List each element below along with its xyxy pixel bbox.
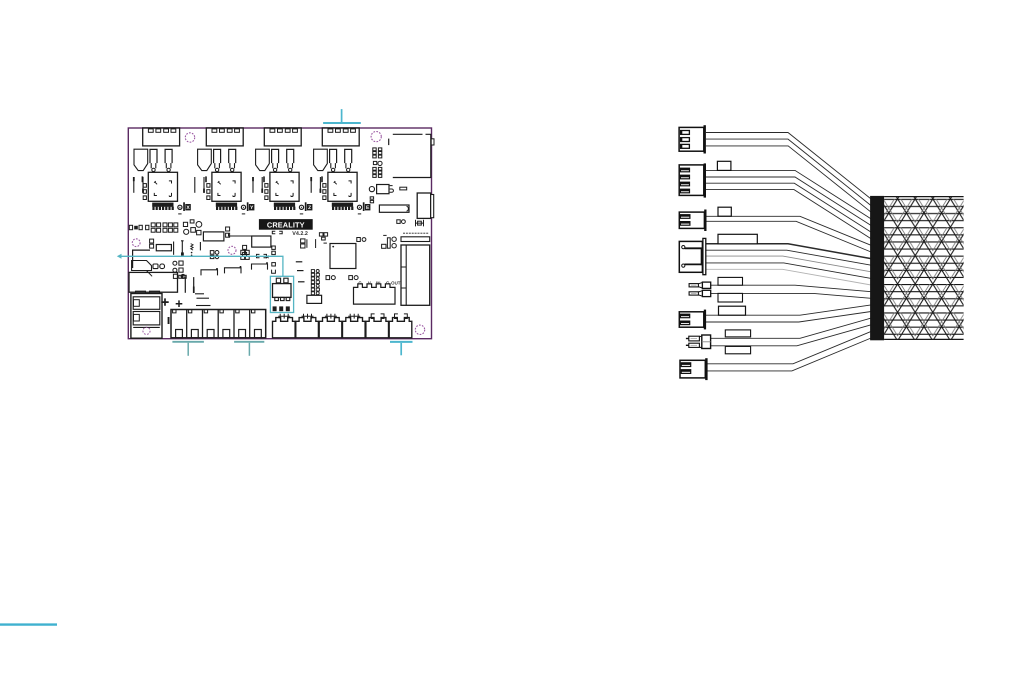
JST connector row bottom right <box>273 318 412 338</box>
pads pair <box>153 264 165 269</box>
connector X2 4-pin (display) <box>679 163 706 197</box>
SD card slot <box>401 245 430 305</box>
svg-text:OUT: OUT <box>391 280 401 285</box>
mounting hole H4 <box>228 246 236 254</box>
mounting hole H1 <box>185 133 194 142</box>
label flag F5b <box>718 293 743 302</box>
label flag F7b <box>725 346 750 353</box>
bracket cap <box>181 241 184 253</box>
label flag F7a <box>725 330 750 337</box>
cyan page-corner line bottom left <box>0 623 57 625</box>
label flag F3 <box>718 207 731 216</box>
USB connector <box>417 193 431 218</box>
connector X3 2-pin <box>679 210 706 232</box>
pin header 2x7 left of MCU <box>311 270 319 295</box>
braided sleeve mesh <box>884 196 964 340</box>
svg-text:V4.2.2: V4.2.2 <box>292 231 308 237</box>
teal box around buck converter <box>270 276 293 312</box>
cyan arrow callout to buck converter <box>117 254 283 276</box>
MCU U1 <box>330 244 356 269</box>
cap marks near MCU <box>357 235 397 248</box>
svg-text:V: V <box>368 280 371 285</box>
connector X6 2-pin <box>679 310 706 330</box>
stepper driver block X (connector, caps, driver chip U1) <box>134 128 191 214</box>
cap cluster with circles <box>183 220 201 235</box>
svg-text:G: G <box>386 280 390 285</box>
small caps above fuse <box>179 275 186 278</box>
jumper brackets row <box>201 264 268 275</box>
stepper driver block E (connector, caps, driver chip U4) <box>314 128 371 214</box>
pads under version <box>301 233 328 248</box>
cap pairs CO <box>326 276 358 280</box>
connector X1 3-pin (Z-stop) <box>679 125 706 153</box>
inductor L1 <box>203 232 224 241</box>
display header opening (EXP) <box>389 134 431 177</box>
cap cluster left of teal box <box>241 250 249 259</box>
resistor R bottom left <box>156 245 171 251</box>
svg-text:G: G <box>358 280 362 285</box>
pads right of hole <box>243 245 247 256</box>
cyan underline marker 1 (bottom left) <box>172 342 204 356</box>
heat shrink band <box>870 196 884 340</box>
label flag F2 <box>717 161 731 170</box>
cyan marker top (E-motor port callout) <box>323 109 361 123</box>
plus marks <box>161 298 168 305</box>
tiny caps on callout line <box>257 246 276 273</box>
screw terminal block bottom (heaters/fans) <box>171 310 266 338</box>
PCB board outline <box>128 128 431 339</box>
cap+crystal marks bottom right <box>397 220 424 227</box>
svg-text:Z: Z <box>308 205 311 211</box>
screw terminal power <box>131 291 162 338</box>
pin marks above JST row <box>278 314 407 319</box>
crimp ferrule pair X5 <box>689 282 711 288</box>
IC U3 long <box>379 205 409 212</box>
tiny caps row left edge <box>129 225 149 229</box>
stepper driver block Z (connector, caps, driver chip U3) <box>256 128 313 214</box>
mounting hole H5 <box>415 325 424 334</box>
corner bracket above heater terminal <box>133 250 150 268</box>
pin header J-ISP 2x6 <box>373 148 382 178</box>
small pads E3 <box>370 197 373 203</box>
cyan underline marker 2 <box>234 342 264 356</box>
label flag F4 <box>718 234 757 244</box>
cap pair C8 <box>150 239 154 248</box>
connector X8 2-pin <box>680 358 708 380</box>
pad grid 2x2 <box>151 223 160 232</box>
zigzag inductor mark <box>191 244 193 251</box>
pad grid 2x3 <box>163 223 178 232</box>
edge tab top right <box>431 139 434 145</box>
dashes left of header <box>296 262 305 282</box>
marks under logo <box>272 231 282 234</box>
heater terminal outline <box>132 261 152 271</box>
mounting hole H3 <box>132 239 140 247</box>
decoupling cap lines between driver blocks <box>134 177 321 193</box>
cyan underline marker 3 (bottom right) <box>390 342 413 355</box>
label flag F6 <box>719 306 746 315</box>
svg-text:CREALITY: CREALITY <box>267 220 305 229</box>
buck converter U2 <box>273 278 292 300</box>
card slot top rect <box>401 237 430 242</box>
label flag F5a <box>718 277 743 285</box>
tiny silkscreen text row <box>403 233 428 234</box>
pads EO <box>210 251 219 259</box>
stepper driver block Y (connector, caps, driver chip U2) <box>198 128 255 214</box>
svg-text:IN: IN <box>376 280 380 285</box>
thermistor plug X7 <box>686 335 711 349</box>
CREALITY logo <box>259 219 313 230</box>
relay/IC outline under logo <box>252 236 271 247</box>
voltage regulator Q (top right) <box>369 185 406 194</box>
servo header connector <box>354 284 396 304</box>
harness wires <box>706 133 871 200</box>
mosfet cluster <box>173 261 185 278</box>
power input block <box>129 272 178 292</box>
connector X4 power plug <box>679 238 706 274</box>
mounting hole H2 <box>371 132 381 142</box>
